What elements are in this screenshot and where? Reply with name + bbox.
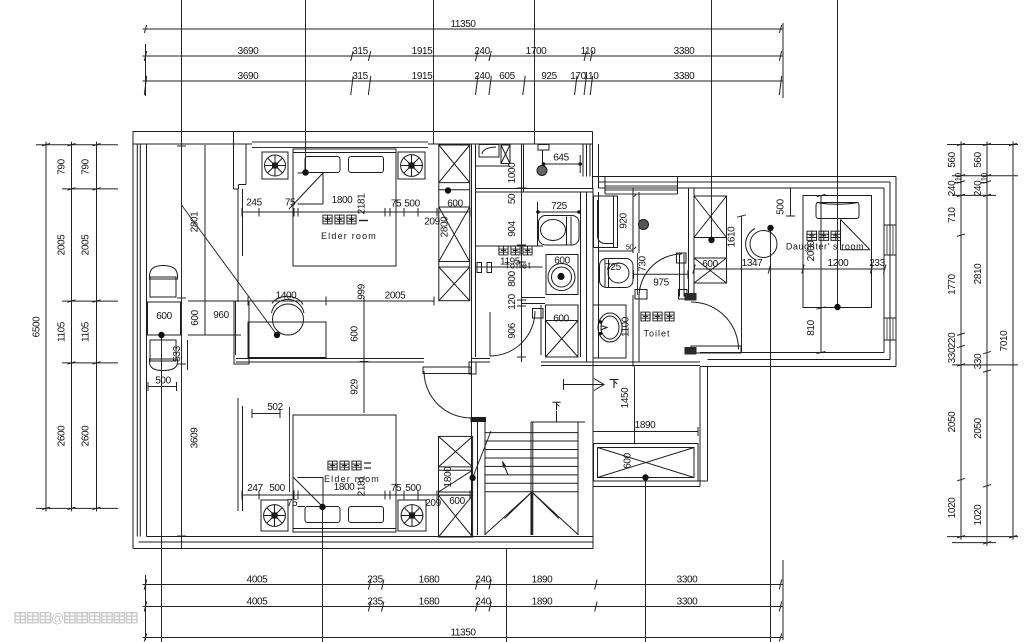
dimension line y=584.5 — [143, 584, 784, 586]
diagonal leader to stool dot — [182, 205, 278, 335]
door: elder room 2 — [423, 367, 471, 374]
leader x=322 from bed-2 dot down — [322, 507, 324, 642]
svg-text:2005: 2005 — [385, 291, 406, 302]
svg-text:2050: 2050 — [947, 411, 958, 432]
wall: top exterior left section — [133, 131, 593, 133]
svg-text:600: 600 — [190, 309, 201, 325]
svg-text:2800: 2800 — [440, 216, 451, 237]
grid line E (x=711) to cabinet spotlight — [711, 0, 713, 240]
svg-text:Elder room: Elder room — [324, 474, 380, 484]
spot dots — [302, 169, 308, 175]
bath1 shelf line — [476, 245, 544, 247]
svg-text:1890: 1890 — [532, 575, 553, 586]
svg-text:3380: 3380 — [674, 71, 695, 82]
svg-text:605: 605 — [499, 71, 515, 82]
stairs treads — [485, 432, 578, 434]
left dim col inner — [96, 142, 98, 512]
nightstand N4 — [398, 500, 426, 531]
svg-text:1800: 1800 — [443, 466, 454, 487]
window: elder1 top — [252, 141, 428, 143]
svg-text:2181: 2181 — [357, 193, 368, 214]
bottom dim end verticals — [145, 575, 147, 640]
svg-text:790: 790 — [57, 158, 68, 174]
svg-text:920: 920 — [619, 212, 630, 228]
svg-text:790: 790 — [81, 158, 92, 174]
svg-text:240: 240 — [475, 597, 491, 608]
wall: daughter west with door opening — [688, 188, 690, 300]
grid line B (x=305) to bed-1 spotlight — [305, 0, 307, 173]
svg-text:500: 500 — [269, 483, 285, 494]
svg-text:725: 725 — [551, 201, 567, 212]
leader x=506 stair down — [506, 548, 508, 642]
svg-text:600: 600 — [553, 314, 569, 325]
svg-text:3300: 3300 — [677, 575, 698, 586]
svg-text:11350: 11350 — [450, 628, 476, 639]
svg-text:235: 235 — [367, 575, 383, 586]
svg-text:Toilet: Toilet — [643, 329, 670, 339]
svg-text:1680: 1680 — [419, 597, 440, 608]
svg-text:3609: 3609 — [190, 427, 201, 448]
daughter chair — [750, 231, 777, 258]
svg-text:600: 600 — [623, 452, 634, 468]
svg-text:Daughter' s room: Daughter' s room — [786, 242, 864, 252]
right dim col inner — [960, 142, 962, 540]
leader x=161 from table dot down — [161, 334, 163, 642]
bath2 920 dim ticks — [634, 194, 636, 196]
nightstand N1 with lamp — [262, 152, 288, 179]
svg-text:1680: 1680 — [419, 575, 440, 586]
svg-text:600: 600 — [702, 259, 718, 270]
svg-text:@: @ — [51, 611, 64, 626]
daughter dims — [790, 188, 792, 216]
toilet T1 niche wall — [537, 202, 539, 246]
wall: left exterior with window band — [132, 131, 134, 549]
left dim connectors — [36, 144, 118, 146]
wall: bottom exterior — [147, 536, 594, 538]
cabinet W3 bath1 — [546, 305, 579, 357]
stair direction arrow — [503, 462, 509, 476]
wall: elder rooms west partition upper stub — [233, 132, 235, 190]
wall: landing bottom — [593, 480, 708, 482]
svg-text:120: 120 — [507, 293, 518, 309]
svg-text:7010: 7010 — [999, 330, 1010, 351]
grid line A (x=181) with 2801/3609 dims — [181, 0, 183, 548]
svg-text:500: 500 — [404, 199, 420, 210]
leader x=645 from landing dot down — [645, 478, 647, 642]
balcony chair 2 — [150, 340, 176, 361]
svg-text:929: 929 — [350, 378, 361, 394]
daughter 2000/810 dim line — [820, 196, 822, 353]
wardrobe W2 (x-boxes) — [439, 436, 473, 537]
wall: bath2 east with door opening — [632, 188, 634, 253]
svg-text:500: 500 — [155, 376, 171, 387]
window: right wall lower — [884, 317, 896, 319]
svg-text:Elder room: Elder room — [321, 231, 377, 241]
svg-text:710: 710 — [947, 207, 958, 223]
landing box with X — [594, 444, 699, 482]
daughter name — [807, 231, 817, 240]
svg-text:975: 975 — [653, 278, 669, 289]
arrow down-corridor — [563, 379, 565, 390]
wall: bath2 divider — [599, 250, 633, 252]
desk in elder1 — [248, 322, 326, 358]
svg-text:1800: 1800 — [332, 195, 353, 206]
window: bath2 top — [605, 181, 678, 183]
svg-text:645: 645 — [553, 153, 569, 164]
wall: basin1 niche west — [540, 305, 542, 355]
svg-text:600: 600 — [156, 311, 172, 322]
wall: stair east — [592, 362, 594, 549]
svg-text:75: 75 — [391, 199, 402, 210]
svg-text:1105: 1105 — [81, 321, 92, 342]
svg-text:3690: 3690 — [238, 71, 259, 82]
dimension line y=56 — [143, 55, 784, 57]
svg-text:533: 533 — [172, 345, 183, 361]
bath1 dims — [544, 163, 581, 165]
svg-text:730: 730 — [638, 255, 649, 271]
svg-text:240: 240 — [474, 71, 490, 82]
svg-text:1200: 1200 — [828, 258, 849, 269]
wall stub x=522 bath1 — [523, 144, 525, 192]
right dim col outer — [986, 142, 988, 546]
svg-text:209: 209 — [425, 498, 441, 509]
wall: bath1 top inner — [476, 188, 593, 190]
wall: elder rooms west partition — [237, 189, 239, 302]
bath1 name — [499, 246, 508, 255]
left dim col middle — [71, 142, 73, 512]
grid line D (x=534) — [534, 0, 536, 144]
svg-text:1915: 1915 — [412, 46, 433, 57]
svg-text:500: 500 — [776, 198, 787, 214]
elder1 name — [323, 215, 332, 224]
svg-text:220: 220 — [947, 332, 958, 348]
wall: wing left below — [699, 367, 701, 487]
svg-text:315: 315 — [352, 71, 368, 82]
svg-text:560: 560 — [947, 151, 958, 167]
svg-text:240: 240 — [475, 575, 491, 586]
svg-text:315: 315 — [352, 46, 368, 57]
right dim connectors — [947, 144, 1018, 146]
svg-text:2005: 2005 — [81, 234, 92, 255]
svg-text:1020: 1020 — [973, 504, 984, 525]
svg-text:233: 233 — [869, 258, 885, 269]
svg-text:1100: 1100 — [621, 316, 632, 337]
svg-text:50: 50 — [507, 193, 518, 204]
x-box fixture top of bath1 — [501, 145, 510, 164]
toilet T1 725 dim — [538, 211, 579, 213]
svg-text:2050: 2050 — [973, 417, 984, 438]
nightstand N3 — [261, 500, 288, 531]
left dim col outer 6500 — [45, 142, 47, 512]
svg-text:235: 235 — [367, 597, 383, 608]
svg-text:500: 500 — [405, 483, 421, 494]
door: hall/bath1 — [489, 312, 491, 356]
stair break chevrons — [485, 492, 578, 535]
svg-text:2810: 2810 — [973, 263, 984, 284]
leader from W2 dot — [473, 431, 491, 478]
wall: right exterior — [883, 188, 885, 353]
svg-text:725: 725 — [605, 262, 621, 273]
stair hall dims — [634, 367, 636, 444]
svg-text:1770: 1770 — [947, 273, 958, 294]
bed B2 elder room 2 — [293, 415, 396, 532]
top dim end verticals — [145, 44, 147, 96]
svg-text:2005: 2005 — [57, 234, 68, 255]
bath2 name — [641, 312, 650, 321]
svg-text:1400: 1400 — [276, 291, 297, 302]
stair down label — [552, 402, 560, 410]
svg-text:110: 110 — [980, 172, 989, 185]
door: daughter room — [691, 346, 741, 353]
curtain line elder2 — [289, 407, 291, 492]
svg-text:110: 110 — [584, 71, 600, 82]
svg-text:3690: 3690 — [238, 46, 259, 57]
svg-text:2600: 2600 — [81, 425, 92, 446]
svg-text:75: 75 — [287, 498, 298, 509]
svg-text:50: 50 — [626, 243, 634, 252]
tray fixture top of bath1 — [479, 145, 499, 158]
elder1 lower dims — [236, 300, 434, 302]
svg-text:247: 247 — [247, 483, 263, 494]
toilet T2 bath2 — [600, 259, 634, 288]
svg-text:1105: 1105 — [57, 321, 68, 342]
svg-text:110: 110 — [581, 46, 597, 57]
dimension line y=81 — [143, 80, 784, 82]
svg-text:999: 999 — [357, 283, 368, 299]
svg-text:3300: 3300 — [677, 597, 698, 608]
svg-text:4005: 4005 — [247, 575, 268, 586]
svg-text:Toilet: Toilet — [504, 261, 531, 271]
svg-text:240: 240 — [474, 46, 490, 57]
sprinkler bath2 — [639, 220, 649, 230]
low cabinet left of desk — [234, 301, 249, 364]
svg-text:4005: 4005 — [247, 597, 268, 608]
wall: left inner face — [146, 144, 148, 537]
svg-text:245: 245 — [246, 198, 262, 209]
wall: elder room east partition x=471 — [471, 144, 473, 537]
svg-text:1020: 1020 — [947, 497, 958, 518]
svg-text:502: 502 — [267, 402, 283, 413]
svg-text:1915: 1915 — [412, 71, 433, 82]
wall: daughter wing bottom — [700, 352, 884, 354]
nightstand N2 with lamp — [398, 152, 425, 179]
svg-text:600: 600 — [449, 496, 465, 507]
wardrobe W1 (x-boxes) — [439, 145, 470, 301]
svg-text:11350: 11350 — [450, 19, 476, 30]
svg-text:560: 560 — [973, 151, 984, 167]
svg-text:904: 904 — [507, 220, 518, 236]
stair west wall inner line — [477, 418, 479, 535]
stool with backrest — [273, 304, 304, 335]
shelf line top of bath1 — [476, 165, 511, 167]
svg-text:960: 960 — [213, 310, 229, 321]
shower tray bath2 — [594, 196, 618, 248]
toilet T1 bath1 — [539, 216, 580, 246]
svg-text:2600: 2600 — [57, 425, 68, 446]
svg-text:600: 600 — [350, 325, 361, 341]
svg-text:1890: 1890 — [635, 420, 656, 431]
dimension line y=637.5 — [143, 637, 784, 639]
wall: bath1 east — [580, 192, 582, 357]
balcony chair 1 — [150, 266, 178, 280]
dimension line y=606.5 — [143, 606, 784, 608]
svg-text:600: 600 — [447, 199, 463, 210]
door: bath2 — [679, 254, 681, 297]
svg-text:1700: 1700 — [526, 46, 547, 57]
svg-text:209: 209 — [424, 217, 440, 228]
dimension line y=29 — [143, 28, 784, 30]
svg-text:110: 110 — [954, 172, 963, 185]
step wall lines x=583-590 — [582, 144, 584, 177]
balcony table — [148, 302, 181, 335]
svg-text:925: 925 — [541, 71, 557, 82]
svg-text:6500: 6500 — [32, 316, 43, 337]
svg-text:330: 330 — [973, 353, 984, 369]
cabinet W4 daughter — [694, 196, 727, 283]
wall: step between sections — [592, 132, 594, 189]
leader x=770 from chair dot down — [770, 228, 772, 642]
wall: bath1 low partition 120 — [521, 297, 545, 299]
svg-text:1890: 1890 — [532, 597, 553, 608]
right dim col 7010 — [1012, 142, 1014, 540]
elder2 name — [328, 461, 337, 470]
svg-text:800: 800 — [507, 270, 518, 286]
daughter bed — [803, 196, 872, 308]
svg-text:810: 810 — [806, 319, 817, 335]
svg-text:600: 600 — [554, 256, 570, 267]
grid line C (x=433) — [433, 0, 435, 144]
wall: top exterior right section — [593, 176, 897, 178]
svg-text:906: 906 — [507, 322, 518, 338]
stair wall column with cap — [484, 422, 486, 535]
bed B1 elder room 1 — [293, 149, 396, 266]
elder2 502 dim — [252, 413, 280, 415]
watermark — [15, 613, 25, 623]
svg-text:75: 75 — [391, 483, 402, 494]
svg-text:75: 75 — [285, 198, 296, 209]
washbasin WB2 bath2 — [593, 305, 626, 358]
svg-text:1347: 1347 — [742, 258, 763, 269]
svg-text:1000: 1000 — [507, 162, 518, 183]
svg-text:1450: 1450 — [620, 387, 631, 408]
wall: bath2 west — [592, 188, 594, 362]
svg-text:330: 330 — [947, 347, 958, 363]
elder2 dim line — [242, 494, 470, 496]
elder1 dim line — [242, 211, 470, 213]
shower head SH1 bath1 — [538, 145, 549, 151]
svg-text:3380: 3380 — [674, 46, 695, 57]
svg-text:1610: 1610 — [727, 226, 738, 247]
window: right wall upper — [884, 224, 896, 226]
wall: corridor south y=361 — [236, 358, 424, 360]
washbasin WB1 bath1 — [546, 255, 578, 295]
grid line F (x=837) to daughter-bed spotlight — [837, 0, 839, 307]
